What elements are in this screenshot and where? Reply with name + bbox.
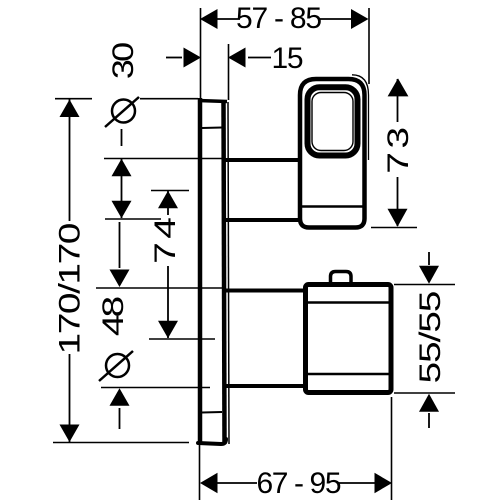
extension line: lower sleeve bottom, leftward for dia 48 [101, 387, 210, 389]
wall plate back silhouette line [228, 102, 229, 444]
extension line: upper stem top, leftward for dia 30 [104, 158, 224, 160]
dimension line 74, upper segment [167, 191, 169, 215]
leader from dia 30 label [121, 129, 123, 146]
diameter symbol circle for dia 30 [112, 100, 135, 123]
dimension line 67-95, right segment [338, 482, 375, 484]
arrowhead dia 48 top (points down) [110, 270, 130, 288]
dimension line dia 48, bottom tail [119, 408, 121, 429]
diameter symbol slash for dia 30 [105, 97, 139, 127]
extension line: plate top, leftward (left part, broken at diameter glyph) [55, 98, 92, 100]
extension line: lower sleeve top, leftward for dia 48 [96, 287, 226, 289]
dimension line 55/55, bottom tail [428, 413, 430, 428]
upper handle outer silhouette arc [352, 75, 369, 160]
upper handle window ring [308, 87, 358, 155]
extension line: plate front face, downward to 67-95 dim [199, 445, 201, 500]
dimension line 170/170, lower segment [69, 354, 71, 442]
arrowhead 15 left (points right) [184, 48, 202, 68]
dimension line 74, lower segment [167, 266, 169, 338]
dimension line 170/170, upper segment [69, 100, 71, 222]
extension line: upper control axis for 74 dim [151, 190, 189, 192]
extension line: knob bottom, rightward for 55/55 dim [394, 392, 455, 394]
dimension line dia 30 [121, 159, 123, 218]
dimension line 15, right tail [248, 57, 271, 59]
svg-text:170/170: 170/170 [54, 223, 87, 355]
svg-text:55/55: 55/55 [414, 291, 447, 384]
lower knob top tab [331, 272, 352, 285]
wall plate left (front) edge [198, 98, 203, 445]
svg-text:48: 48 [97, 296, 130, 336]
dimension line 15, left tail [166, 57, 182, 59]
lower stem top line [225, 289, 307, 293]
dimension line 55/55, top tail [428, 252, 430, 265]
dimension line 67-95, left segment [217, 482, 257, 484]
svg-text:30: 30 [107, 42, 140, 79]
arrowhead 73 up [388, 78, 409, 96]
arrowhead 74 down [158, 321, 178, 339]
upper stem bottom line [225, 218, 302, 222]
arrowhead 55/55 top (points down) [419, 266, 439, 284]
dimension line 57-85, left segment [217, 18, 240, 20]
extension line: plate bottom, leftward for 170/170 dim [53, 442, 189, 444]
wall plate right (back) edge [224, 101, 225, 442]
arrowhead dia 30 up [112, 159, 132, 177]
upper handle window inner line [312, 93, 353, 151]
lower stem bottom line [225, 384, 307, 388]
arrowhead 15 right (points left) [228, 48, 246, 68]
wall plate top corner line [202, 127, 222, 130]
extension line: lower control axis for 74 dim [149, 338, 215, 340]
wall plate bottom corner line [202, 411, 222, 414]
dimension line 73, lower segment [397, 177, 399, 226]
dimension line 73, upper segment [397, 79, 399, 122]
arrowhead 170/170 top [60, 100, 80, 118]
arrowhead 74 up [158, 191, 178, 209]
dimension line 57-85, right segment [320, 18, 352, 20]
upper handle base line [300, 205, 364, 207]
extension line: handle outer face, upward to 57-85 dim [368, 8, 370, 84]
extension line: knob top, rightward for 55/55 dim [394, 284, 455, 286]
arrowhead 170/170 bottom [60, 425, 80, 443]
lower knob outline [306, 285, 392, 393]
arrowhead 55/55 bottom (points up) [419, 394, 439, 412]
arrowhead 67-95 right [375, 473, 393, 493]
extension line: knob outer face, downward to 67-95 dim [391, 397, 393, 500]
arrowhead 67-95 left [200, 473, 218, 493]
arrowhead 57-85 left [200, 9, 218, 29]
diameter symbol slash for dia 48 [99, 351, 133, 381]
upper stem top line [225, 158, 302, 162]
svg-text:67 - 95: 67 - 95 [257, 467, 342, 500]
dimension line dia 48, top tail [119, 222, 121, 268]
arrowhead dia 48 bottom (points up) [110, 388, 130, 406]
svg-text:57 - 85: 57 - 85 [236, 2, 322, 35]
upper handle outline [300, 79, 365, 228]
extension line: plate front face, upward to 57-85 dim [200, 8, 202, 98]
extension line: upper stem bottom, leftward for dia 30 [105, 218, 161, 220]
arrowhead 73 down [388, 209, 408, 227]
extension line: plate back face, upward to 15 dim [228, 44, 230, 100]
wall plate bottom edge [198, 439, 226, 444]
arrowhead 57-85 right [351, 9, 369, 29]
diameter symbol circle for dia 48 [106, 354, 129, 377]
svg-text:15: 15 [272, 42, 304, 75]
lower knob bottom groove line [308, 373, 389, 375]
extension line: plate top, leftward (right part) [140, 98, 198, 100]
lower knob top groove line [308, 301, 389, 303]
extension line: handle bottom, rightward for 73 dim [371, 227, 417, 229]
arrowhead dia 30 down [112, 201, 132, 219]
wall plate top edge [198, 101, 227, 102]
